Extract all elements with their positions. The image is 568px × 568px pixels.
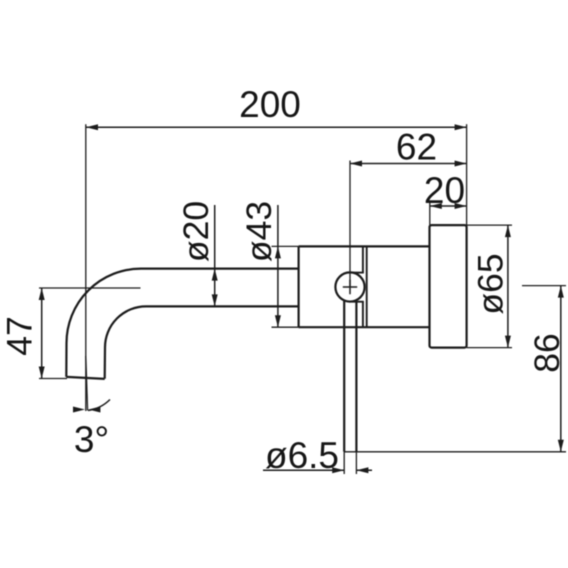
dim 62 line xyxy=(350,163,467,165)
dim ø65 line xyxy=(507,225,509,348)
spout inner curve and edge xyxy=(105,306,146,378)
svg-text:ø43: ø43 xyxy=(239,201,279,262)
extension line spout tip xyxy=(39,378,67,380)
wall plate xyxy=(430,225,467,348)
svg-text:200: 200 xyxy=(239,84,301,125)
body bottom edge extension for ø43 xyxy=(272,326,299,328)
svg-text:ø6.5: ø6.5 xyxy=(265,435,339,476)
dim 200 line xyxy=(86,126,467,128)
dim 20 line xyxy=(430,205,467,207)
extension line wall face xyxy=(466,124,468,225)
plate top edge extension xyxy=(467,224,512,226)
dim 86 line xyxy=(560,286,562,452)
dim ø20 leader line xyxy=(214,205,216,306)
extension line spout axis xyxy=(39,287,141,289)
dim 200 left arrow xyxy=(86,124,98,130)
dim ø65 down arrow xyxy=(505,336,511,348)
extension line handle axis xyxy=(349,161,351,288)
lever rod left line xyxy=(343,300,345,452)
ø6.5 arrow pointing left at rod xyxy=(356,467,368,473)
3° slanted axis line xyxy=(86,356,88,411)
body inner divider with notch xyxy=(362,246,364,327)
3° arc xyxy=(88,400,110,411)
body top edge extension for ø43 xyxy=(272,245,299,247)
dim 47 down arrow xyxy=(39,367,45,379)
svg-text:20: 20 xyxy=(424,170,465,211)
dim 20 right arrow xyxy=(455,203,467,209)
dim 20 left arrow xyxy=(430,203,442,209)
ø6.5 arrow pointing right at rod xyxy=(332,467,344,473)
dim ø43 down arrow xyxy=(275,315,281,327)
notch bottom step xyxy=(352,301,364,303)
handle pivot circle xyxy=(335,272,364,301)
svg-text:86: 86 xyxy=(527,333,567,373)
rod bottom corner extension lines xyxy=(344,452,356,474)
spout bottom end edge (3° cut) xyxy=(66,377,104,379)
notch top step xyxy=(352,272,364,274)
extension line plate left xyxy=(429,203,431,225)
extension line left of 200 down to 3° vertex xyxy=(85,124,87,411)
extension line handle axis right xyxy=(522,285,566,287)
dim 47 line xyxy=(41,288,43,379)
svg-text:47: 47 xyxy=(0,316,40,356)
leader line ø6.5 with right arrow xyxy=(263,469,372,471)
svg-text:ø20: ø20 xyxy=(176,201,216,262)
pivot cross xyxy=(343,280,357,294)
body cartridge outline xyxy=(299,246,430,327)
dim ø43 up arrow xyxy=(275,246,281,258)
3° right arrow xyxy=(88,407,100,413)
dim 200 right arrow xyxy=(455,124,467,130)
dim 86 up arrow xyxy=(558,286,564,298)
dim 47 up arrow xyxy=(39,288,45,300)
spout tube bottom line xyxy=(146,305,299,307)
dim 62 left arrow xyxy=(350,161,362,167)
3° left arrow xyxy=(73,407,85,413)
dim ø65 up arrow xyxy=(505,225,511,237)
extension line lever tip xyxy=(344,451,566,453)
dim 86 down arrow xyxy=(558,440,564,452)
spout tube top line xyxy=(141,268,299,270)
svg-text:ø65: ø65 xyxy=(471,253,511,314)
dim ø20 up arrow xyxy=(212,269,218,281)
dim 62 right arrow xyxy=(455,161,467,167)
dim ø20 down arrow xyxy=(212,294,218,306)
plate bottom edge extension xyxy=(467,347,512,349)
svg-text:62: 62 xyxy=(396,127,437,168)
lever rod right line xyxy=(355,302,357,452)
svg-text:3°: 3° xyxy=(74,419,109,460)
dim ø43 leader line xyxy=(277,205,279,327)
body second divider xyxy=(366,246,368,327)
spout outer curve and left edge xyxy=(66,269,141,377)
